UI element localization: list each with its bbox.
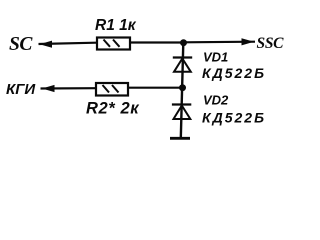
svg-text:R2* 2к: R2* 2к: [86, 100, 140, 118]
diode VD1: [173, 58, 192, 72]
svg-text:VD1: VD1: [203, 50, 228, 65]
svg-text:SC: SC: [9, 34, 33, 55]
value label R2* 2k: [86, 100, 140, 118]
svg-text:SSC: SSC: [257, 35, 285, 52]
resistor R1: [97, 38, 130, 50]
node SSC label: [257, 35, 285, 52]
designator VD2: [203, 93, 229, 108]
designator VD1: [203, 50, 228, 65]
wire R1 to node A: [130, 41, 184, 43]
wire R2 to node B: [128, 87, 183, 89]
svg-text:КД522Б: КД522Б: [202, 65, 266, 81]
wire KGI lead with left arrowhead: [41, 85, 96, 92]
resistor R2: [96, 83, 128, 96]
diode VD2: [172, 105, 191, 120]
wire node A to SSC with right arrowhead: [184, 38, 256, 45]
value label R1 1k: [95, 17, 137, 34]
node A junction dot: [180, 39, 187, 46]
node KGI label: [6, 81, 36, 98]
node B junction dot: [179, 84, 186, 91]
value label KD522B (VD2): [202, 110, 266, 126]
value label KD522B (VD1): [202, 65, 266, 81]
wire vertical bus node A to ground: [181, 43, 184, 139]
svg-text:VD2: VD2: [203, 93, 229, 108]
node SC label: [9, 34, 33, 55]
svg-text:КД522Б: КД522Б: [202, 110, 266, 126]
wire SC lead with left arrowhead: [39, 41, 97, 48]
svg-text:КГИ: КГИ: [6, 81, 36, 98]
ground bar: [170, 137, 190, 140]
svg-text:R1 1к: R1 1к: [95, 17, 137, 34]
